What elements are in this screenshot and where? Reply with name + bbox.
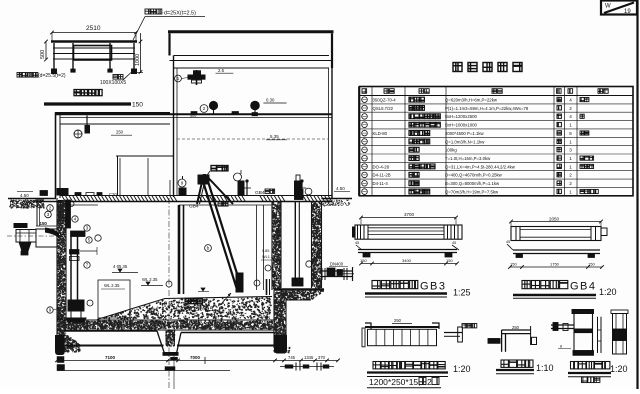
lug main profile (502, 329, 531, 331)
bracket front view (574, 313, 593, 352)
riser pipe next to wall (66, 200, 71, 228)
railing post feet (52, 69, 57, 74)
inlet channel box (36, 229, 57, 247)
hopper dark label (185, 299, 203, 304)
svg-text:150: 150 (132, 102, 143, 109)
right rail near wall (266, 279, 268, 295)
svg-text:500: 500 (190, 114, 196, 118)
guard post A (246, 182, 248, 195)
corner equipment left (57, 189, 68, 196)
bracket label (571, 362, 610, 369)
left room slab underside (60, 123, 170, 125)
outlet channel far wall stippled (311, 202, 313, 289)
bracket underline (568, 372, 611, 374)
inlet elbow pipe dark (45, 228, 59, 239)
channel bottom slab (274, 288, 324, 291)
svg-text:2510: 2510 (86, 25, 101, 32)
dim 500 (45, 41, 47, 60)
railing posts (53, 43, 55, 69)
base mat bottom line (63, 345, 164, 347)
plate left end marks (362, 328, 365, 347)
ground line left of building (8, 198, 56, 200)
table header (362, 89, 367, 94)
platform in left room (116, 155, 174, 157)
drawing border right edge (636, 0, 638, 389)
circ on slant (205, 245, 212, 252)
benching stipple (103, 297, 272, 320)
svg-text:1000: 1000 (135, 54, 141, 66)
logo box top-right (601, 1, 637, 15)
bracket left arm (551, 324, 574, 326)
GB4 plan view (511, 227, 601, 241)
GB3 bottom dim (361, 263, 457, 265)
post mid dark (238, 181, 244, 196)
table title (453, 63, 522, 72)
guard post B (301, 182, 303, 195)
GB4 label (522, 281, 568, 289)
valve on pipe (70, 250, 80, 255)
outlet pipe through wall (321, 270, 352, 272)
right wall footing blob (274, 335, 287, 354)
plate top edge (365, 326, 439, 328)
post right dark (295, 181, 302, 196)
railing leader label steel pipe (145, 9, 162, 14)
GB3 side view (358, 249, 457, 251)
svg-text:(d=25.5(t=2): (d=25.5(t=2) (38, 73, 66, 79)
circles in channel top (47, 205, 54, 212)
circ 1 (175, 75, 182, 82)
svg-text:250: 250 (116, 130, 124, 135)
pipe dots on floor (209, 101, 218, 110)
lug hook piece (444, 332, 462, 334)
inlet support foot (19, 242, 31, 251)
pit window lines (179, 204, 272, 206)
angle steel label 100X100X5 (113, 75, 123, 80)
GB3 plan view (355, 225, 462, 239)
svg-text:·d=25X(t=2.5): ·d=25X(t=2.5) (162, 11, 196, 17)
tall section walls (173, 56, 175, 198)
svg-text:0.30: 0.30 (266, 98, 275, 103)
circ near bench (254, 280, 260, 286)
bottom dim line 2 (57, 370, 230, 372)
right rails thin (256, 205, 258, 290)
inlet channel left wall up (36, 202, 38, 227)
left section top slab (55, 112, 170, 114)
svg-text:5.35: 5.35 (270, 134, 279, 139)
benching outline (97, 297, 272, 320)
railing top rail (51, 40, 137, 43)
post left with circle (178, 179, 186, 187)
building ground floor slab hatched (60, 195, 332, 197)
plate body (368, 329, 437, 345)
slant screen (204, 183, 238, 291)
hook + circle-cross (74, 130, 82, 138)
base mat top line (64, 330, 157, 332)
pit left wall lower curve (56, 329, 80, 352)
bracket side view (613, 314, 627, 355)
left wall footing blob (55, 335, 65, 355)
grating drive small line (169, 180, 171, 195)
operating floor line (55, 113, 332, 115)
svg-text:100X100X5: 100X100X5 (100, 80, 126, 86)
bracket mid bars (597, 317, 599, 353)
bottom dim line 1 (57, 359, 338, 361)
thick bar 150 (44, 102, 131, 105)
svg-text:19: 19 (624, 9, 631, 15)
GB4 side view (513, 249, 600, 251)
label movable railing (74, 90, 102, 96)
floor slab stippled band (57, 319, 274, 321)
vertical text on wall (58, 201, 63, 206)
WL mark 1 (118, 269, 122, 272)
tall section roof slab (168, 30, 334, 33)
dim 1000 (140, 33, 142, 73)
screen discharge A-frame (197, 175, 233, 204)
svg-text:4.50: 4.50 (20, 193, 29, 198)
floor marks left room (75, 193, 81, 196)
valve assembly U1 (196, 70, 198, 85)
svg-text:GB4: GB4 (255, 190, 265, 196)
GB4 underline (513, 294, 596, 296)
WL mark 2 (146, 282, 150, 285)
outlet drop pipe (294, 202, 296, 281)
qty note (582, 377, 600, 383)
vertical pipe in pit (70, 236, 72, 300)
table rows (362, 97, 368, 103)
svg-text:GB4: GB4 (189, 204, 199, 210)
pipe circles (72, 216, 78, 222)
inlet sleeve pipe (14, 224, 27, 228)
leader arrow (222, 293, 231, 303)
sump step outline (286, 299, 311, 301)
center pocket (157, 331, 165, 354)
hopper label with leader (211, 166, 228, 171)
railing bottom-left label (17, 73, 38, 78)
svg-text:150: 150 (40, 221, 48, 226)
small guide box left (98, 280, 130, 318)
GB3 underline (365, 292, 447, 294)
svg-text:500: 500 (40, 50, 46, 59)
ground line right of building (322, 198, 353, 200)
centerline (168, 198, 170, 389)
floor tick blocks (191, 112, 197, 115)
guide rail bar (178, 205, 181, 294)
pit left wall stippled (56, 198, 58, 344)
GB3 label (372, 281, 418, 289)
lug underline (496, 369, 534, 371)
outlet flange cross (340, 273, 354, 275)
slant screen foot (236, 273, 243, 292)
plate underline (367, 371, 448, 373)
pit right wall stippled (271, 202, 273, 291)
dashed mid line (177, 138, 328, 140)
railing inner panel (74, 46, 112, 61)
svg-text:2.5: 2.5 (218, 68, 225, 73)
elbow arm dark (71, 231, 86, 237)
deep sump left wall (273, 290, 275, 348)
plate label (373, 362, 445, 369)
lug label (501, 360, 533, 367)
svg-text:4.50: 4.50 (336, 186, 345, 191)
railing mid rails (53, 47, 135, 49)
building left low section wall (55, 113, 57, 199)
GB4 bottom dim (510, 266, 602, 268)
svg-text:W: W (605, 4, 611, 10)
corner blob on slab (40, 191, 48, 196)
table frame (360, 87, 634, 196)
submersible pump (68, 300, 84, 311)
